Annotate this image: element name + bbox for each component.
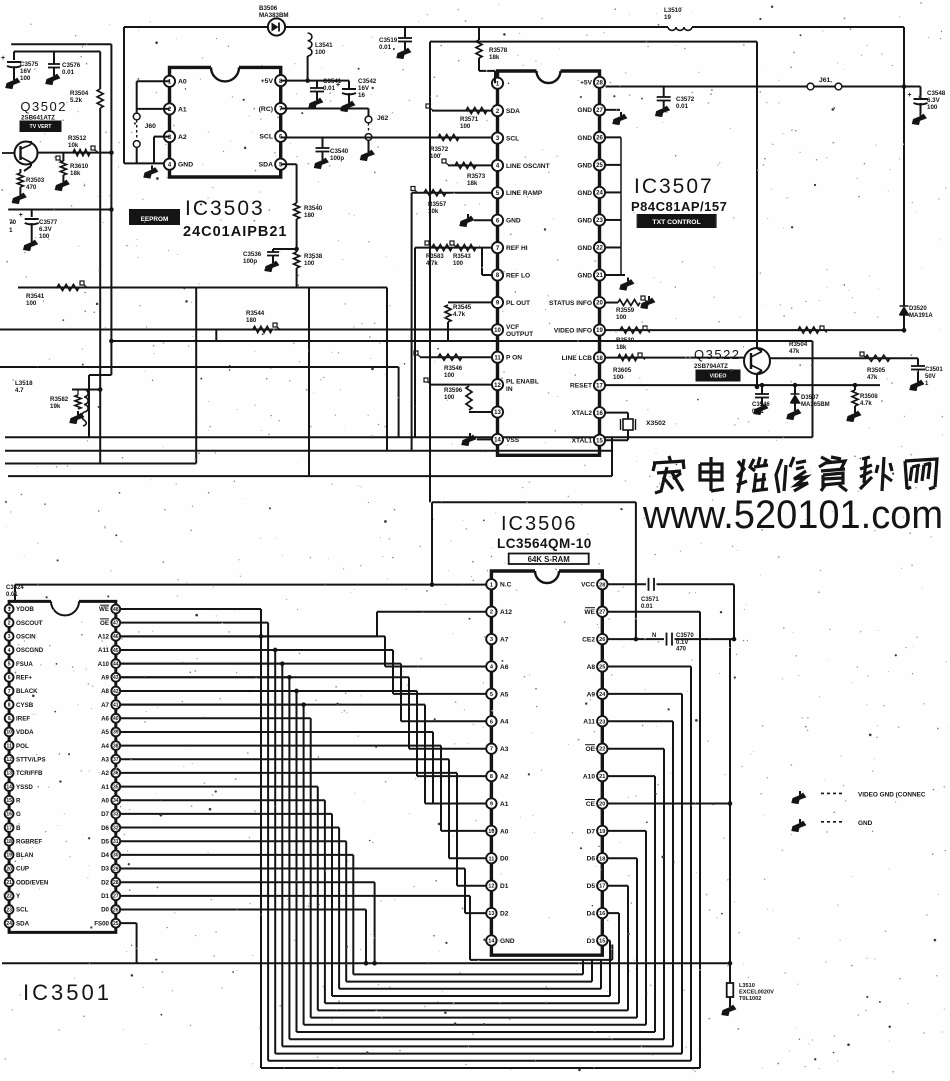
svg-text:+: + <box>19 212 23 219</box>
svg-text:19k: 19k <box>50 403 61 410</box>
svg-text:L3510: L3510 <box>739 983 755 989</box>
svg-text:27: 27 <box>596 108 603 114</box>
svg-text:5: 5 <box>490 692 493 698</box>
svg-text:R3512: R3512 <box>68 135 87 142</box>
svg-text:GND: GND <box>178 162 193 169</box>
svg-text:REF HI: REF HI <box>506 245 528 252</box>
svg-text:A12: A12 <box>98 634 110 641</box>
svg-text:16: 16 <box>6 812 12 818</box>
svg-text:A5: A5 <box>500 691 509 698</box>
svg-text:100: 100 <box>616 314 627 321</box>
svg-text:28: 28 <box>599 582 605 588</box>
svg-text:100: 100 <box>444 394 455 401</box>
svg-text:A10: A10 <box>583 774 595 781</box>
svg-text:VDDA: VDDA <box>16 729 34 736</box>
svg-text:TXT CONTROL: TXT CONTROL <box>652 219 700 226</box>
svg-text:100: 100 <box>613 374 624 381</box>
svg-text:GND: GND <box>858 820 873 827</box>
svg-text:18k: 18k <box>467 180 478 187</box>
svg-text:J62: J62 <box>377 115 389 122</box>
svg-text:B: B <box>16 825 21 832</box>
svg-text:4.7k: 4.7k <box>453 311 466 318</box>
svg-text:A2: A2 <box>500 774 509 781</box>
svg-text:8: 8 <box>490 774 493 780</box>
svg-text:10k: 10k <box>428 208 439 215</box>
svg-text:16V: 16V <box>358 85 370 92</box>
svg-text:23: 23 <box>6 907 12 913</box>
svg-text:OUTPUT: OUTPUT <box>506 331 533 338</box>
svg-text:R3557: R3557 <box>428 201 447 208</box>
svg-text:10: 10 <box>494 328 501 334</box>
svg-text:D5: D5 <box>587 883 596 890</box>
svg-text:27: 27 <box>599 610 605 616</box>
svg-text:39: 39 <box>113 730 119 736</box>
svg-text:C3576: C3576 <box>62 62 81 69</box>
svg-text:2SB794ATZ: 2SB794ATZ <box>694 363 728 370</box>
svg-text:CUP: CUP <box>16 866 29 873</box>
svg-text:MA365BM: MA365BM <box>801 402 830 408</box>
svg-text:26: 26 <box>113 907 119 913</box>
svg-text:A2: A2 <box>178 134 187 141</box>
svg-text:18k: 18k <box>489 54 500 61</box>
svg-text:6: 6 <box>490 719 493 725</box>
svg-text:21: 21 <box>599 774 605 780</box>
svg-text:100: 100 <box>927 104 938 111</box>
svg-text:J61: J61 <box>819 77 831 84</box>
svg-text:REF+: REF+ <box>16 675 32 682</box>
svg-text:LC3564QM-10: LC3564QM-10 <box>497 536 592 551</box>
svg-text:13: 13 <box>6 771 12 777</box>
svg-text:VIDEO: VIDEO <box>710 374 727 380</box>
svg-text:SCL: SCL <box>16 907 29 914</box>
svg-text:R3505: R3505 <box>867 367 886 374</box>
svg-text:D5: D5 <box>101 838 109 845</box>
svg-text:D6: D6 <box>587 856 596 863</box>
svg-text:100: 100 <box>460 123 471 130</box>
svg-text:GND: GND <box>506 218 521 225</box>
svg-text:33: 33 <box>113 812 119 818</box>
svg-text:A8: A8 <box>587 664 596 671</box>
svg-text:22: 22 <box>596 246 603 252</box>
svg-text:47k: 47k <box>867 374 878 381</box>
svg-text:+5V: +5V <box>580 80 593 87</box>
svg-text:R3540: R3540 <box>304 205 323 212</box>
svg-text:C3575: C3575 <box>20 61 39 68</box>
svg-text:R3544: R3544 <box>246 310 265 317</box>
svg-text:D4: D4 <box>101 852 109 859</box>
svg-text:20: 20 <box>596 301 603 307</box>
svg-text:GND: GND <box>500 938 515 945</box>
svg-text:R3578: R3578 <box>489 47 508 54</box>
svg-text:R3508: R3508 <box>860 394 878 400</box>
svg-text:34: 34 <box>113 798 119 804</box>
svg-text:19: 19 <box>599 829 605 835</box>
svg-text:41: 41 <box>113 702 119 708</box>
svg-text:A11: A11 <box>98 647 110 654</box>
svg-text:16: 16 <box>358 92 365 99</box>
svg-text:R3596: R3596 <box>444 387 463 394</box>
svg-text:47k: 47k <box>789 348 800 355</box>
svg-text:GND: GND <box>577 272 592 279</box>
svg-text:XTAL1: XTAL1 <box>572 438 593 445</box>
svg-text:www.520101.com: www.520101.com <box>642 493 943 537</box>
svg-text:C3542: C3542 <box>358 78 377 85</box>
svg-text:D3: D3 <box>101 866 109 873</box>
svg-text:D3520: D3520 <box>909 306 927 312</box>
svg-text:D3507: D3507 <box>801 395 819 401</box>
svg-text:4.7k: 4.7k <box>860 401 872 407</box>
svg-text:A11: A11 <box>583 719 595 726</box>
svg-text:R3573: R3573 <box>467 173 486 180</box>
svg-text:12: 12 <box>494 383 501 389</box>
svg-text:64K S-RAM: 64K S-RAM <box>528 555 570 564</box>
svg-text:R3582: R3582 <box>50 396 69 403</box>
svg-text:23: 23 <box>596 218 603 224</box>
svg-text:15: 15 <box>599 939 605 945</box>
svg-text:4: 4 <box>8 648 11 654</box>
svg-text:GND: GND <box>577 135 592 142</box>
svg-text:G: G <box>16 811 21 818</box>
svg-text:43: 43 <box>113 675 119 681</box>
svg-text:0.01: 0.01 <box>676 103 689 110</box>
svg-text:100: 100 <box>453 261 464 267</box>
svg-text:C3577: C3577 <box>39 219 58 226</box>
svg-text:STATUS INFO: STATUS INFO <box>549 300 592 307</box>
svg-text:2: 2 <box>490 610 493 616</box>
svg-text:22: 22 <box>599 747 605 753</box>
svg-text:25: 25 <box>599 665 605 671</box>
svg-text:25: 25 <box>113 921 119 927</box>
svg-text:FSUA: FSUA <box>16 661 33 668</box>
svg-text:YDOB: YDOB <box>16 606 34 613</box>
svg-text:+: + <box>1 55 5 62</box>
svg-text:Q3522: Q3522 <box>694 347 741 362</box>
svg-text:POL: POL <box>16 743 29 750</box>
svg-text:R3559: R3559 <box>616 307 635 314</box>
svg-text:D1: D1 <box>500 883 509 890</box>
svg-text:16: 16 <box>599 911 605 917</box>
svg-text:17: 17 <box>599 884 605 890</box>
svg-text:46: 46 <box>113 634 119 640</box>
svg-text:SCL: SCL <box>506 135 519 142</box>
svg-text:20: 20 <box>6 866 12 872</box>
svg-text:IN: IN <box>506 386 513 393</box>
svg-text:VIDEO GND (CONNEC: VIDEO GND (CONNEC <box>858 792 926 799</box>
svg-text:18: 18 <box>6 839 12 845</box>
svg-text:RESET: RESET <box>570 383 592 390</box>
svg-text:19: 19 <box>596 328 603 334</box>
svg-text:WE: WE <box>99 606 109 613</box>
svg-text:+: + <box>908 92 912 99</box>
svg-text:RGBREF: RGBREF <box>16 838 42 845</box>
svg-text:OSCOUT: OSCOUT <box>16 620 43 627</box>
svg-text:0.01: 0.01 <box>6 592 18 598</box>
svg-text:26: 26 <box>596 136 603 142</box>
svg-text:48: 48 <box>113 607 119 613</box>
svg-text:7: 7 <box>8 689 11 695</box>
svg-text:WE: WE <box>584 609 595 616</box>
svg-text:D2: D2 <box>101 879 109 886</box>
svg-text:A1: A1 <box>178 106 187 113</box>
svg-text:100p: 100p <box>243 258 257 265</box>
svg-text:B3506: B3506 <box>259 5 278 12</box>
svg-text:0.01: 0.01 <box>641 604 653 610</box>
svg-text:A7: A7 <box>101 702 109 709</box>
svg-text:2: 2 <box>8 620 11 626</box>
svg-text:470: 470 <box>26 184 37 191</box>
svg-text:38: 38 <box>113 743 119 749</box>
svg-text:P84C81AP/157: P84C81AP/157 <box>631 199 727 214</box>
svg-text:100p: 100p <box>330 155 344 162</box>
svg-text:ODD/EVEN: ODD/EVEN <box>16 879 49 886</box>
svg-text:C3536: C3536 <box>243 251 262 258</box>
svg-text:42: 42 <box>113 689 119 695</box>
svg-text:R3572: R3572 <box>430 146 449 153</box>
svg-text:5: 5 <box>8 661 11 667</box>
svg-text:28: 28 <box>113 880 119 886</box>
svg-text:CE2: CE2 <box>582 637 595 644</box>
svg-text:TV VERT: TV VERT <box>30 124 53 130</box>
svg-text:24: 24 <box>596 191 603 197</box>
svg-text:+5V: +5V <box>261 78 274 85</box>
svg-text:EXCEL0020V: EXCEL0020V <box>739 989 774 995</box>
svg-text:18: 18 <box>599 856 605 862</box>
svg-text:STTV/LPS: STTV/LPS <box>16 756 46 763</box>
svg-text:OSCGND: OSCGND <box>16 647 44 654</box>
svg-text:A5: A5 <box>101 729 109 736</box>
svg-text:45: 45 <box>113 648 119 654</box>
svg-text:REF LO: REF LO <box>506 272 530 279</box>
svg-text:16V: 16V <box>20 68 32 75</box>
svg-text:R3541: R3541 <box>26 293 45 300</box>
svg-text:T0L1002: T0L1002 <box>739 996 761 1002</box>
svg-text:24: 24 <box>599 692 606 698</box>
svg-text:N: N <box>652 633 656 639</box>
svg-text:GND: GND <box>577 217 592 224</box>
svg-text:MA383BM: MA383BM <box>259 12 289 19</box>
svg-text:R3546: R3546 <box>444 365 463 372</box>
svg-text:A3: A3 <box>500 746 509 753</box>
svg-text:180: 180 <box>304 212 315 219</box>
svg-text:D4: D4 <box>587 911 596 918</box>
svg-text:LINE LCB: LINE LCB <box>562 355 593 362</box>
svg-text:VIDEO INFO: VIDEO INFO <box>554 327 592 334</box>
svg-text:1: 1 <box>490 582 493 588</box>
svg-text:17: 17 <box>596 383 603 389</box>
svg-text:14: 14 <box>488 939 495 945</box>
svg-text:18: 18 <box>596 356 603 362</box>
svg-text:A10: A10 <box>98 661 110 668</box>
svg-text:SCL: SCL <box>259 134 273 141</box>
svg-text:L3541: L3541 <box>315 42 333 49</box>
svg-text:A7: A7 <box>500 637 509 644</box>
svg-text:100: 100 <box>304 260 315 267</box>
svg-text:47: 47 <box>113 620 119 626</box>
svg-text:24C01AIPB21: 24C01AIPB21 <box>183 224 288 240</box>
svg-text:C3546: C3546 <box>752 402 770 408</box>
svg-text:8: 8 <box>8 702 11 708</box>
svg-text:0.01: 0.01 <box>752 409 764 415</box>
svg-text:18k: 18k <box>70 170 81 177</box>
svg-text:P ON: P ON <box>506 355 522 362</box>
svg-text:R3504: R3504 <box>70 90 89 97</box>
svg-text:R3504: R3504 <box>789 341 808 348</box>
svg-text:14: 14 <box>6 784 12 790</box>
svg-text:27: 27 <box>113 894 119 900</box>
svg-text:A0: A0 <box>101 797 109 804</box>
svg-text:LINE OSC/INT: LINE OSC/INT <box>506 163 550 170</box>
svg-text:28: 28 <box>596 80 603 86</box>
svg-text:100: 100 <box>444 372 455 379</box>
svg-text:D3: D3 <box>587 938 596 945</box>
svg-text:C3571: C3571 <box>641 597 659 603</box>
svg-text:23: 23 <box>599 719 605 725</box>
svg-text:VCF: VCF <box>506 324 519 331</box>
svg-text:D2: D2 <box>500 911 509 918</box>
svg-text:C3572: C3572 <box>676 96 695 103</box>
svg-text:XTAL2: XTAL2 <box>572 410 593 417</box>
svg-text:24: 24 <box>6 921 12 927</box>
svg-text:(RC): (RC) <box>259 106 273 113</box>
svg-text:GND: GND <box>577 190 592 197</box>
svg-text:R3610: R3610 <box>70 163 89 170</box>
svg-text:A1: A1 <box>101 784 109 791</box>
svg-text:A4: A4 <box>500 719 509 726</box>
svg-text:4.7: 4.7 <box>15 387 24 394</box>
svg-text:IC3503: IC3503 <box>185 197 265 220</box>
svg-text:470: 470 <box>676 647 687 653</box>
svg-text:19: 19 <box>6 853 12 859</box>
svg-text:A1: A1 <box>500 801 509 808</box>
svg-text:A6: A6 <box>500 664 509 671</box>
svg-text:29: 29 <box>113 866 119 872</box>
svg-text:GND: GND <box>577 162 592 169</box>
svg-text:IREF: IREF <box>16 715 30 722</box>
svg-text:6.3V: 6.3V <box>927 97 941 104</box>
svg-text:IC3501: IC3501 <box>23 980 112 1005</box>
svg-text:44: 44 <box>113 661 119 667</box>
svg-text:7: 7 <box>490 747 493 753</box>
svg-text:35: 35 <box>113 784 119 790</box>
svg-text:PL OUT: PL OUT <box>506 300 530 307</box>
svg-text:4.7k: 4.7k <box>426 261 438 267</box>
svg-text:C3540: C3540 <box>330 148 349 155</box>
svg-text:16: 16 <box>596 411 603 417</box>
svg-text:A0: A0 <box>500 828 509 835</box>
svg-text:25: 25 <box>596 163 603 169</box>
svg-text:11: 11 <box>488 856 494 862</box>
svg-text:YSSD: YSSD <box>16 784 33 791</box>
svg-text:L3518: L3518 <box>15 380 33 387</box>
svg-text:6: 6 <box>8 675 11 681</box>
svg-text:R3583: R3583 <box>426 254 444 260</box>
svg-text:OE: OE <box>585 746 595 753</box>
svg-text:15: 15 <box>6 798 12 804</box>
svg-text:1: 1 <box>9 227 13 234</box>
svg-text:Q3502: Q3502 <box>20 99 67 114</box>
svg-text:SDA: SDA <box>259 162 273 169</box>
svg-text:A12: A12 <box>500 609 512 616</box>
svg-text:R3571: R3571 <box>460 116 479 123</box>
svg-text:A2: A2 <box>101 770 109 777</box>
svg-text:BLAN: BLAN <box>16 852 34 859</box>
svg-text:CE: CE <box>586 801 596 808</box>
svg-text:X3502: X3502 <box>646 420 666 427</box>
svg-text:22: 22 <box>6 894 12 900</box>
svg-text:19: 19 <box>664 14 671 21</box>
svg-text:50V: 50V <box>925 374 936 380</box>
svg-text:BLACK: BLACK <box>16 688 38 695</box>
svg-text:PL ENABL: PL ENABL <box>506 379 539 386</box>
svg-text:10: 10 <box>6 730 12 736</box>
svg-text:37: 37 <box>113 757 119 763</box>
svg-text:21: 21 <box>6 880 12 886</box>
svg-text:9: 9 <box>490 802 493 808</box>
svg-text:0.01: 0.01 <box>323 85 336 92</box>
svg-text:D0: D0 <box>101 907 109 914</box>
svg-text:0.01: 0.01 <box>62 69 75 76</box>
svg-text:IC3506: IC3506 <box>501 513 578 535</box>
svg-text:15: 15 <box>596 438 603 444</box>
svg-text:SDA: SDA <box>16 920 30 927</box>
svg-text:A9: A9 <box>101 675 109 682</box>
svg-text:31: 31 <box>113 839 119 845</box>
svg-text:180: 180 <box>246 317 257 324</box>
svg-text:17: 17 <box>6 825 12 831</box>
svg-text:13: 13 <box>494 410 501 416</box>
svg-text:TCR/FFB: TCR/FFB <box>16 770 43 777</box>
svg-text:R3605: R3605 <box>613 367 632 374</box>
svg-text:A4: A4 <box>101 743 109 750</box>
svg-text:C3548: C3548 <box>927 90 946 97</box>
svg-text:D7: D7 <box>101 811 109 818</box>
svg-text:OE: OE <box>100 620 109 627</box>
svg-text:GND: GND <box>577 107 592 114</box>
svg-text:100: 100 <box>315 49 326 56</box>
svg-text:C3570: C3570 <box>676 633 694 639</box>
svg-text:3: 3 <box>490 637 493 643</box>
svg-text:100: 100 <box>20 75 31 82</box>
svg-text:A3: A3 <box>101 756 109 763</box>
svg-text:R: R <box>16 797 21 804</box>
svg-text:6.3V: 6.3V <box>39 226 53 233</box>
svg-text:J60: J60 <box>145 123 157 130</box>
svg-text:36: 36 <box>113 771 119 777</box>
svg-text:VSS: VSS <box>506 437 520 444</box>
svg-text:3: 3 <box>8 634 11 640</box>
svg-text:2SB641ATZ: 2SB641ATZ <box>21 115 55 122</box>
svg-text:D0: D0 <box>500 856 509 863</box>
svg-text:12: 12 <box>488 884 494 890</box>
svg-text:L3510: L3510 <box>664 7 682 14</box>
svg-text:30: 30 <box>113 853 119 859</box>
svg-text:N.C: N.C <box>500 582 512 589</box>
svg-text:+: + <box>336 82 340 89</box>
svg-text:100: 100 <box>430 153 441 160</box>
svg-text:26: 26 <box>599 637 605 643</box>
svg-text:R3543: R3543 <box>453 254 471 260</box>
svg-text:IC3507: IC3507 <box>634 175 714 198</box>
svg-text:C3519: C3519 <box>379 37 398 44</box>
svg-text:10k: 10k <box>68 142 79 149</box>
svg-text:40: 40 <box>113 716 119 722</box>
svg-text:OSCIN: OSCIN <box>16 634 36 641</box>
svg-text:GND: GND <box>577 245 592 252</box>
svg-text:D6: D6 <box>101 825 109 832</box>
svg-text:LINE RAMP: LINE RAMP <box>506 190 543 197</box>
svg-text:VCC: VCC <box>581 582 595 589</box>
svg-text:11: 11 <box>6 743 12 749</box>
